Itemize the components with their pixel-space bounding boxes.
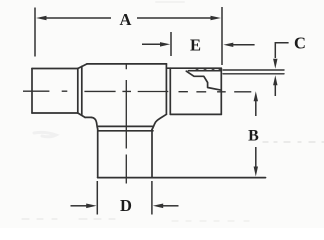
branch right wall xyxy=(151,130,153,178)
thread tick 3 xyxy=(211,68,215,70)
dimension B top arrow line xyxy=(255,101,257,116)
branch centerline xyxy=(125,65,127,184)
left top chamfer xyxy=(78,64,87,69)
main run centerline xyxy=(23,90,251,93)
right section bottom edge xyxy=(170,113,221,115)
svg-text:B: B xyxy=(248,128,259,145)
dimension D left arrowhead xyxy=(86,204,96,209)
dimension C top arrowhead xyxy=(273,59,277,69)
branch bottom face and B extension line xyxy=(98,177,266,179)
left socket cup line 2 xyxy=(81,66,83,115)
branch right transition curve xyxy=(152,114,166,129)
dimension B bottom arrow line xyxy=(255,147,257,167)
dimension C bottom arrowhead xyxy=(273,75,277,85)
branch left transition curve xyxy=(92,117,98,129)
svg-text:E: E xyxy=(190,36,201,55)
dimension B top arrowhead xyxy=(254,91,258,101)
thread tick 2 xyxy=(203,68,207,70)
body bottom edge left of branch xyxy=(85,116,92,118)
body top edge xyxy=(87,63,167,65)
socket interior step profile xyxy=(186,71,221,90)
dimension E right arrow line xyxy=(233,44,255,46)
left bottom chamfer xyxy=(78,113,85,117)
wall band lower line (C feature) xyxy=(223,73,284,75)
branch bead line upper xyxy=(98,125,153,127)
dimension E right arrowhead xyxy=(223,43,233,47)
branch bead line lower xyxy=(98,130,153,132)
right face xyxy=(220,68,222,114)
right socket cup line 1 xyxy=(165,64,167,114)
dimension D left arrow line xyxy=(71,205,87,207)
dimension A arrowhead left xyxy=(36,16,47,20)
dimension A extension line right xyxy=(221,7,223,65)
dimension B bottom arrowhead xyxy=(254,167,258,177)
dimension A line right segment xyxy=(137,17,212,19)
thread tick 4 xyxy=(218,69,221,71)
dimension C leader xyxy=(275,43,288,58)
thread tick 1 xyxy=(195,68,199,70)
branch left wall xyxy=(97,129,99,178)
tee left hub top edge xyxy=(32,68,78,70)
svg-text:D: D xyxy=(120,196,132,215)
dimension E left arrow line xyxy=(142,43,161,45)
dimension E left extension tick xyxy=(170,32,172,56)
tee body left face xyxy=(31,69,33,114)
svg-text:C: C xyxy=(294,34,306,53)
right section top edge xyxy=(167,67,222,69)
dimension A arrowhead right xyxy=(211,16,222,20)
dimension D right arrowhead xyxy=(153,204,163,209)
dimension A line left segment xyxy=(45,17,111,19)
right socket cup line 2 xyxy=(169,68,171,114)
left socket cup line 1 xyxy=(77,69,79,114)
thread inner line xyxy=(189,70,222,72)
svg-text:A: A xyxy=(120,10,132,29)
dimension A extension line left xyxy=(34,8,36,57)
dimension E left arrowhead xyxy=(160,42,170,47)
dimension D right arrow line xyxy=(163,205,179,207)
tee left hub bottom edge xyxy=(32,112,78,114)
dimension C bottom arrow line xyxy=(274,85,276,96)
dimension D extension line left xyxy=(96,181,98,215)
wall band upper line (C feature) xyxy=(223,69,284,71)
dimension D extension line right xyxy=(151,181,153,215)
